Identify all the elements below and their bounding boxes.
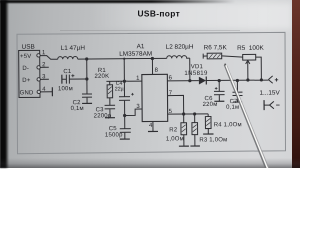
capacitor C4 22u polarized — [119, 81, 134, 129]
svg-text:1...15V: 1...15V — [259, 90, 280, 97]
resistor R2 — [181, 114, 187, 146]
capacitor C6 220u polarized — [214, 81, 225, 101]
svg-text:C1: C1 — [63, 69, 72, 75]
pointer needle — [225, 65, 268, 168]
svg-text:3: 3 — [136, 104, 140, 110]
svg-text:1: 1 — [136, 76, 140, 82]
wire riser rail to feedback node — [123, 59, 125, 81]
svg-text:USB: USB — [22, 44, 35, 51]
potentiometer R5 body — [243, 54, 256, 60]
wire stub D+ pin 3 — [40, 78, 48, 80]
resistor R3 — [192, 114, 198, 146]
wire from USB pin 1 to L1 — [40, 56, 58, 60]
ground bar at C3 — [105, 117, 115, 119]
svg-text:22µ: 22µ — [115, 86, 124, 92]
node dot C6 — [218, 79, 221, 82]
node dot R5 to output rail — [260, 78, 263, 81]
svg-text:7: 7 — [169, 91, 173, 97]
node dot pin7 junction — [182, 112, 185, 115]
node dot switch node — [188, 79, 191, 82]
resistor R6 with terminal tick — [203, 53, 243, 59]
pointer needle left shadow edge — [224, 65, 267, 168]
svg-text:1,0Ом: 1,0Ом — [166, 136, 184, 142]
svg-text:L1 47µH: L1 47µH — [61, 45, 86, 52]
svg-text:USB-порт: USB-порт — [138, 9, 181, 19]
capacitor C3 — [105, 105, 116, 117]
svg-text:R6 7,5K: R6 7,5K — [204, 44, 228, 51]
ground bar at C5 — [120, 138, 130, 140]
wire R5 right end down to output rail — [256, 57, 262, 80]
node dot riser top — [123, 58, 125, 60]
pin contact circle 2 — [37, 66, 40, 69]
svg-text:L2 820µH: L2 820µH — [166, 44, 194, 51]
node dot rail/C1 branch — [85, 57, 88, 60]
svg-text:220м: 220м — [203, 102, 218, 108]
wire +5V rail — [78, 57, 167, 60]
svg-text:R5 100K: R5 100K — [237, 45, 264, 52]
node dot C7 — [236, 79, 239, 82]
op-amp IC A1 LM3578AM body — [142, 74, 168, 121]
ground bar at C6 — [214, 100, 224, 102]
svg-text:D+: D+ — [22, 78, 31, 84]
svg-text:6: 6 — [169, 76, 173, 82]
wire stub D- pin 2 — [40, 66, 48, 68]
inductor L1 — [58, 56, 78, 59]
wire IC pin 7 down to sense line — [168, 95, 184, 114]
wire IC pin 5 sense line — [168, 113, 208, 115]
chassis ground bar at USB GND — [51, 87, 53, 96]
ground bar at C2 — [82, 102, 92, 104]
svg-text:C5: C5 — [109, 126, 118, 132]
svg-text:D-: D- — [22, 66, 29, 72]
wire feedback node to IC pin 1 — [106, 80, 141, 82]
wire output rail from diode — [206, 79, 268, 81]
ground bar at pin 4 — [148, 130, 158, 132]
pointer needle right soft edge — [227, 65, 270, 168]
node dot riser/pin1 wire — [123, 80, 126, 83]
output minus terminal with bar — [264, 100, 280, 110]
node dot C1 to branch — [85, 77, 88, 80]
wiper arm of R5 — [246, 60, 250, 79]
node dot wiper to output rail — [246, 78, 249, 81]
capacitor C1 100u — [62, 74, 87, 84]
wire IC pin 3 to C4/C5 bus — [125, 109, 143, 115]
pointer needle dark tip — [224, 64, 226, 66]
svg-text:R3 1,0Ом: R3 1,0Ом — [199, 137, 227, 143]
wire riser L2 to switch node — [189, 58, 191, 80]
wire IC pin 8 to rail — [151, 58, 153, 74]
node dot pin8 rail — [151, 57, 154, 60]
capacitor C2 — [82, 94, 92, 103]
pin contact circle 1 — [37, 54, 40, 57]
svg-text:100м: 100м — [58, 86, 73, 92]
wire IC pin 6 to diode — [167, 80, 198, 82]
svg-text:GND: GND — [20, 90, 34, 96]
svg-text:R4 1,0Ом: R4 1,0Ом — [214, 122, 242, 128]
svg-text:LM3578AM: LM3578AM — [119, 51, 152, 58]
ground bar at C7 — [233, 101, 242, 103]
svg-text:0,1м: 0,1м — [226, 105, 239, 111]
svg-text:220K: 220K — [94, 74, 109, 80]
svg-text:4: 4 — [149, 123, 153, 129]
svg-text:2200p: 2200p — [94, 113, 112, 119]
node dot pin3 bus — [123, 114, 126, 117]
pin contact circle 3 — [37, 78, 40, 81]
svg-text:R2: R2 — [169, 127, 178, 133]
diode VD1 1N5819 — [199, 77, 206, 85]
connector X1 USB socket body — [19, 50, 40, 97]
output plus terminal arrow — [268, 76, 278, 83]
wire IC pin 4 to ground — [152, 121, 154, 131]
resistor R4 — [205, 114, 211, 134]
ground bar at R2 — [179, 145, 189, 147]
border frame of schematic — [17, 32, 286, 153]
svg-text:+5V: +5V — [20, 54, 31, 60]
inductor L2 — [167, 56, 190, 59]
capacitor C5 — [120, 129, 131, 139]
ground bar at C1 — [61, 75, 63, 84]
svg-text:8: 8 — [155, 68, 159, 74]
wire from USB pin 4 GND — [40, 91, 52, 93]
svg-text:A1: A1 — [137, 43, 145, 50]
pin contact circle 4 — [37, 90, 40, 93]
svg-text:0,1м: 0,1м — [71, 106, 84, 112]
resistor R1 — [107, 81, 113, 105]
ground bar at R3 — [190, 145, 199, 147]
ground bar at R4 — [203, 133, 213, 135]
node dot R3 junction — [193, 112, 196, 115]
svg-text:1N5819: 1N5819 — [184, 70, 208, 77]
wire branch down to C1/C2 — [86, 59, 88, 94]
svg-text:1500p: 1500p — [105, 132, 123, 138]
capacitor C7 — [232, 81, 242, 102]
svg-text:5: 5 — [169, 109, 173, 115]
